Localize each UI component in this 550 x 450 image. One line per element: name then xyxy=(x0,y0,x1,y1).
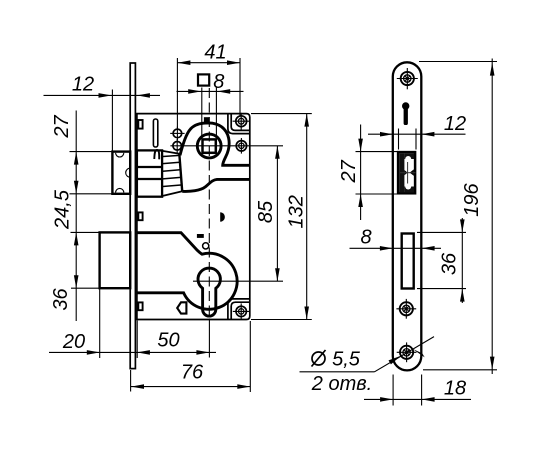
svg-text:76: 76 xyxy=(181,362,204,384)
svg-text:27: 27 xyxy=(338,159,360,183)
svg-text:85: 85 xyxy=(255,200,277,223)
svg-text:36: 36 xyxy=(50,288,72,311)
svg-text:36: 36 xyxy=(439,252,461,275)
svg-text:8: 8 xyxy=(360,226,371,248)
svg-text:18: 18 xyxy=(444,378,466,400)
svg-text:41: 41 xyxy=(204,42,226,64)
svg-text:132: 132 xyxy=(286,195,308,228)
svg-text:27: 27 xyxy=(51,115,73,139)
svg-text:24,5: 24,5 xyxy=(52,189,74,230)
svg-text:5,5: 5,5 xyxy=(332,349,361,371)
svg-text:50: 50 xyxy=(157,330,179,352)
svg-text:20: 20 xyxy=(62,331,85,353)
svg-text:196: 196 xyxy=(461,182,483,216)
svg-text:12: 12 xyxy=(72,74,94,96)
svg-text:12: 12 xyxy=(444,113,466,135)
svg-text:2 отв.: 2 отв. xyxy=(311,373,372,395)
svg-text:8: 8 xyxy=(213,71,224,93)
